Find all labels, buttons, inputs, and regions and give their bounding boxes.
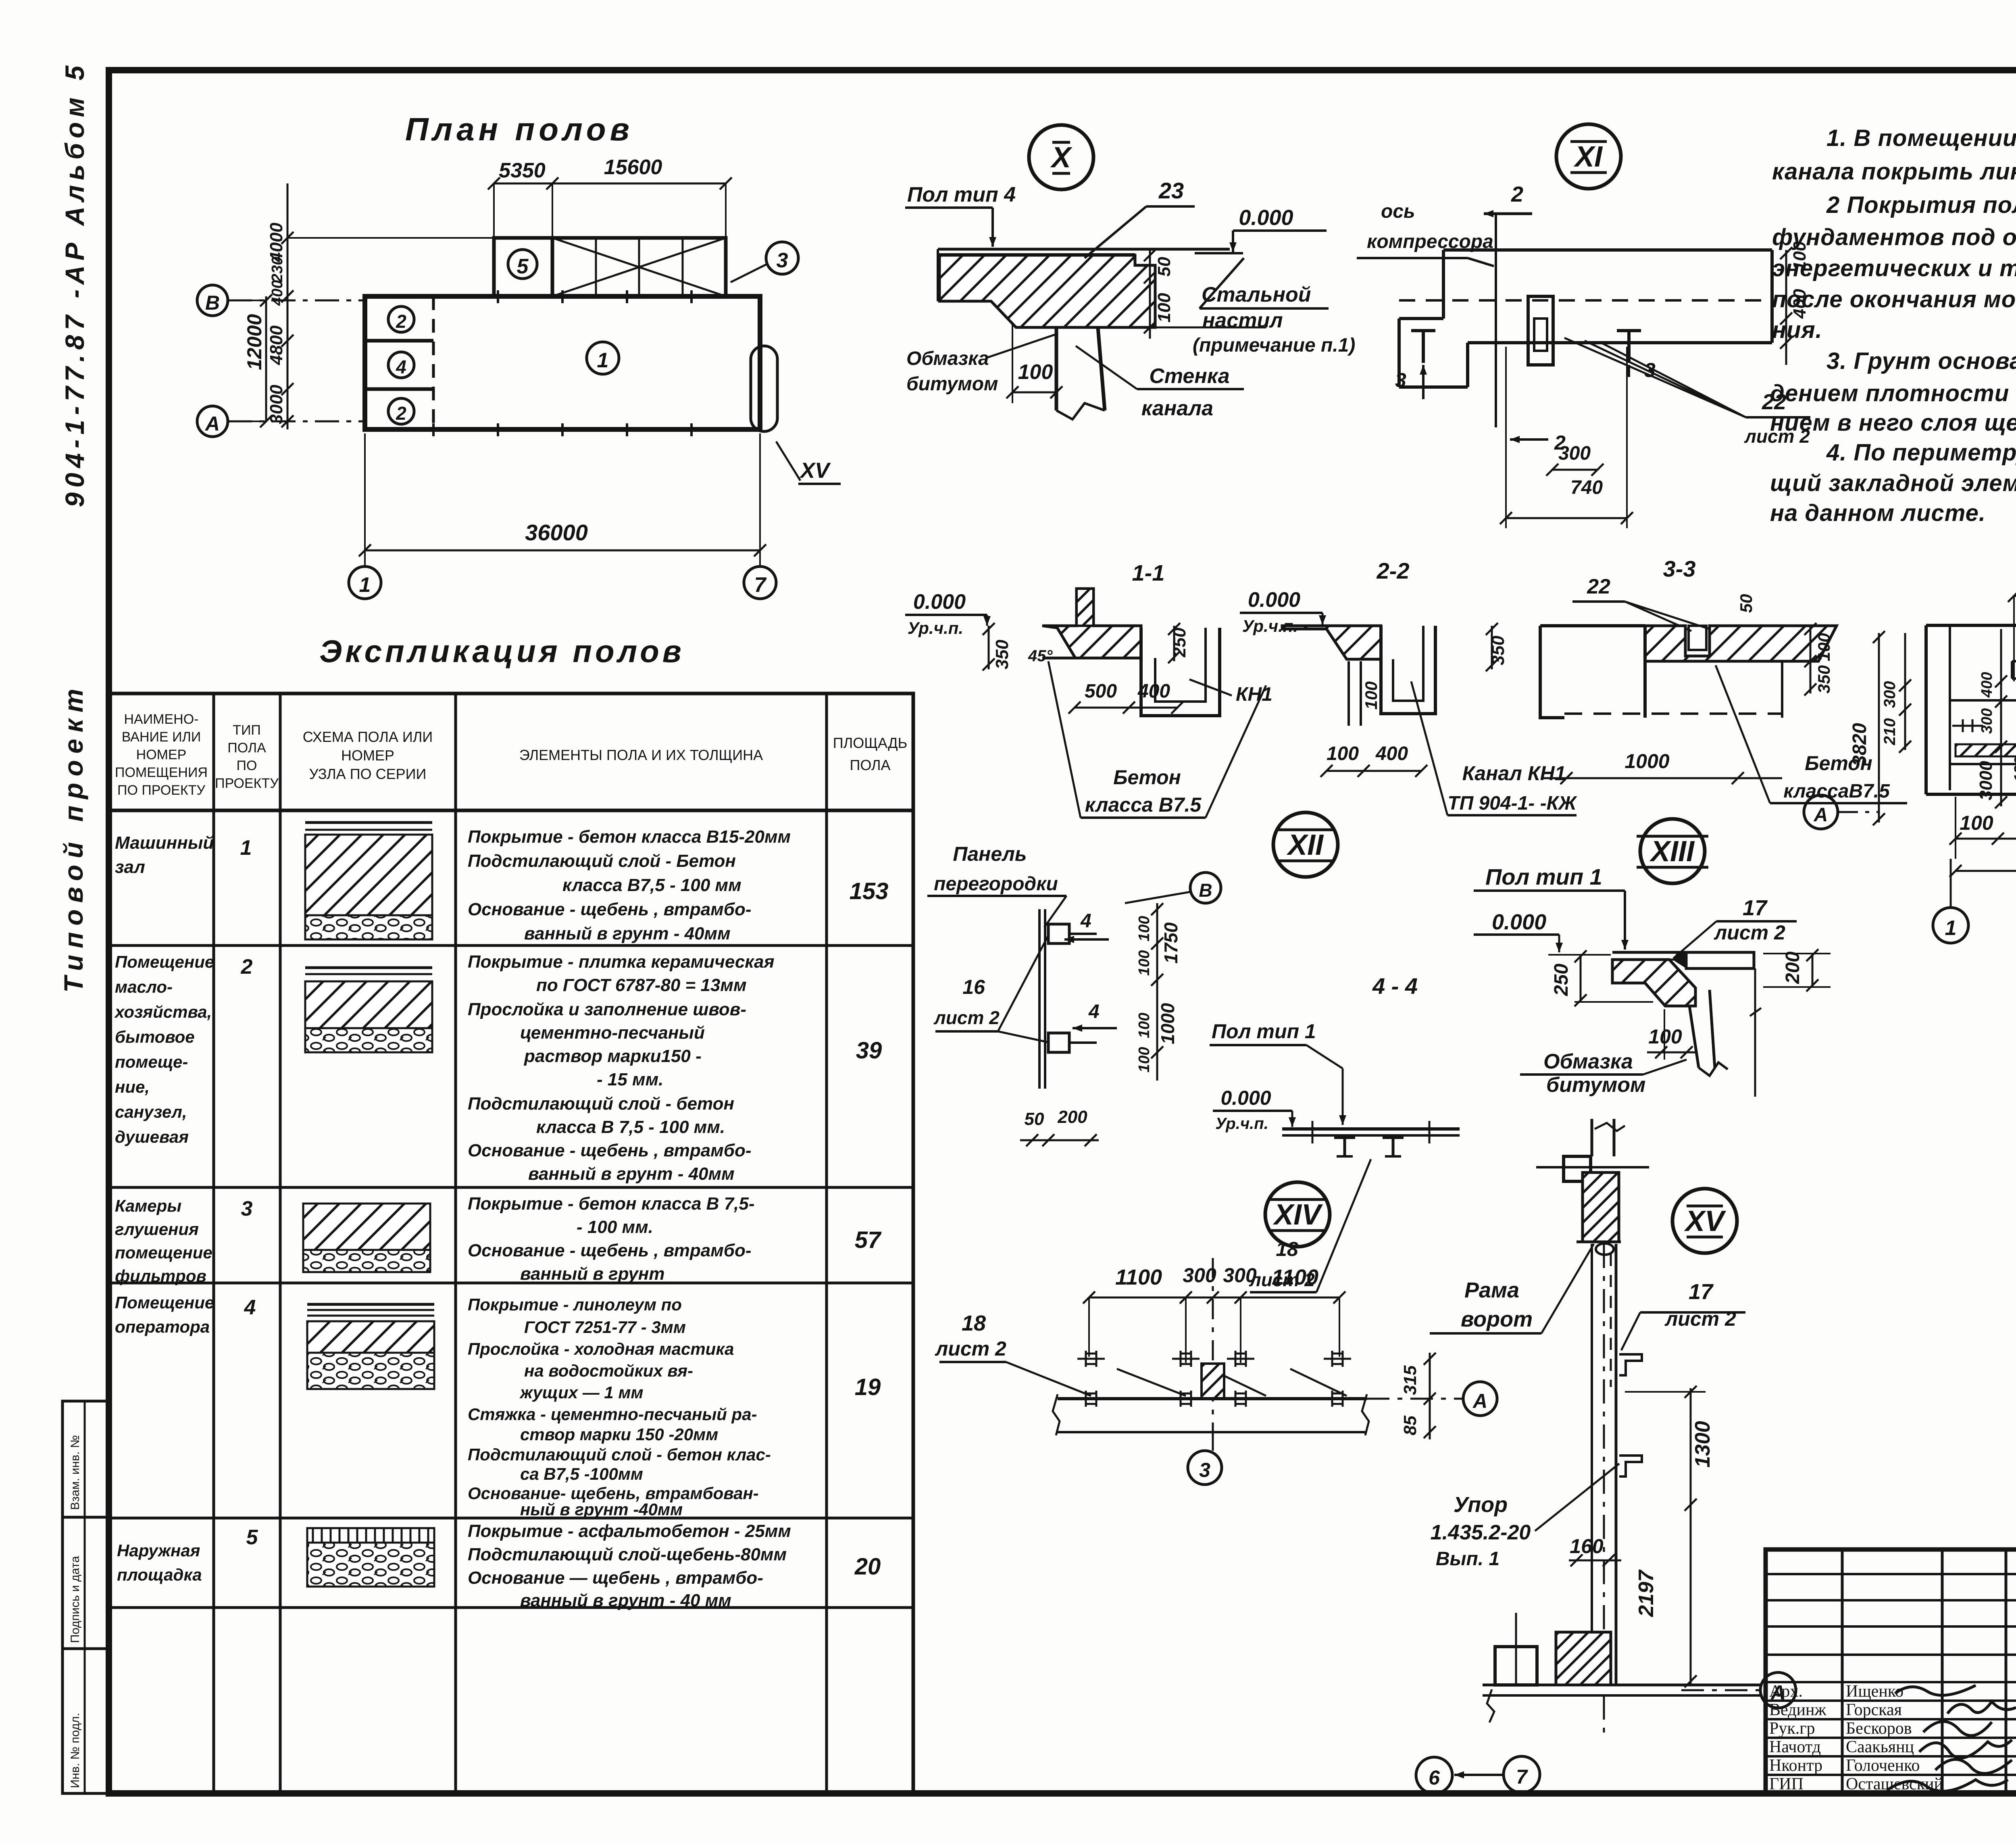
svg-text:Упор: Упор [1454, 1493, 1508, 1517]
svg-text:Арх.: Арх. [1769, 1682, 1803, 1701]
svg-text:План полов: План полов [405, 111, 633, 147]
svg-text:Подстилающий слой - бетон: Подстилающий слой - бетон [468, 1094, 734, 1114]
left margin stamp boxes [62, 1401, 109, 1517]
svg-text:Подстилающий слой-щебень-80мм: Подстилающий слой-щебень-80мм [468, 1545, 787, 1564]
svg-text:12000: 12000 [243, 314, 266, 370]
svg-text:Горская: Горская [1846, 1701, 1902, 1719]
svg-text:4000: 4000 [267, 223, 286, 262]
svg-text:1000: 1000 [1157, 1003, 1178, 1044]
detail XIV: central hatched column [1202, 1364, 1224, 1398]
section 2-2: floor slab with trench bevel [1282, 626, 1381, 659]
room circle 2 (lower) [388, 398, 414, 424]
detail XIV: right rotated dims 315 85 [1429, 1353, 1431, 1439]
svg-text:Взам. инв. №: Взам. инв. № [69, 1435, 82, 1510]
svg-text:ГОСТ 7251-77 - 3мм: ГОСТ 7251-77 - 3мм [524, 1318, 686, 1337]
svg-text:39: 39 [856, 1037, 882, 1064]
svg-text:1: 1 [597, 349, 609, 372]
svg-text:100: 100 [1327, 743, 1359, 764]
svg-text:ванный в грунт - 40мм: ванный в грунт - 40мм [528, 1164, 735, 1184]
svg-text:Вып. 1: Вып. 1 [1436, 1548, 1500, 1570]
svg-text:щий закладной элемент в со: щий закладной элемент в соответствии с у… [1770, 470, 2016, 496]
svg-text:1: 1 [1945, 916, 1957, 940]
svg-text:цементно-песчаный: цементно-песчаный [520, 1023, 705, 1043]
svg-text:Стенка: Стенка [1149, 364, 1229, 388]
svg-text:глушения: глушения [115, 1220, 199, 1239]
floor plan: inner partition walls [432, 296, 435, 429]
svg-text:4800: 4800 [267, 325, 286, 365]
detail XV oval mark on right wall [751, 346, 777, 431]
svg-text:Наружная: Наружная [117, 1541, 200, 1560]
room circle 1 (machine hall) [587, 342, 619, 374]
svg-text:1300: 1300 [1691, 1421, 1714, 1468]
svg-text:17: 17 [1743, 896, 1768, 920]
svg-text:Прослойка и заполнение швов-: Прослойка и заполнение швов- [468, 1000, 746, 1019]
svg-text:ПОЛА: ПОЛА [850, 757, 890, 773]
svg-text:1100: 1100 [1272, 1265, 1318, 1289]
svg-text:(примечание п.1): (примечание п.1) [1193, 335, 1355, 356]
room circle 2 (upper) [388, 306, 414, 332]
svg-text:Экспликация полов: Экспликация полов [319, 633, 685, 669]
row 5 schema [307, 1528, 434, 1543]
svg-text:Подпись и дата: Подпись и дата [69, 1556, 82, 1643]
title block: signature squiggles [1895, 1685, 1976, 1695]
section 4-4: steel floor slab [1282, 1127, 1460, 1131]
detail X: channel wall below [1055, 327, 1058, 410]
svg-text:класса В7.5: класса В7.5 [1085, 793, 1202, 816]
svg-text:2197: 2197 [1635, 1569, 1658, 1617]
floor plan: main building outline [365, 296, 760, 429]
svg-text:Рама: Рама [1464, 1278, 1519, 1302]
svg-text:Саакьянц: Саакьянц [1846, 1738, 1914, 1756]
svg-text:Начотд: Начотд [1769, 1738, 1821, 1756]
svg-text:210: 210 [1881, 718, 1899, 746]
svg-text:3: 3 [777, 249, 788, 272]
svg-text:Осташевский: Осташевский [1846, 1775, 1943, 1793]
svg-text:6: 6 [1429, 1766, 1440, 1789]
svg-text:350: 350 [992, 639, 1012, 669]
svg-text:1750: 1750 [1160, 922, 1181, 964]
svg-text:1: 1 [240, 836, 252, 860]
svg-text:5350: 5350 [499, 159, 546, 182]
fragment 2: axis circle А left [1804, 795, 1838, 829]
row 4 schema [307, 1303, 434, 1306]
axis circle В [197, 285, 228, 316]
fragment 2: dim 6000 [1956, 870, 2016, 872]
detail XV: hatched pier [1583, 1172, 1619, 1242]
svg-text:Помещение: Помещение [115, 952, 214, 971]
detail XI: section mark 2 (bottom) [1510, 438, 1548, 441]
svg-text:ГИП: ГИП [1769, 1775, 1804, 1793]
svg-text:помещение: помещение [115, 1243, 212, 1262]
svg-text:300: 300 [1183, 1264, 1216, 1287]
svg-text:ось: ось [1381, 201, 1415, 222]
svg-text:2: 2 [396, 403, 406, 424]
svg-text:300: 300 [1979, 708, 1995, 734]
svg-text:200: 200 [1782, 952, 1804, 984]
svg-text:0.000: 0.000 [1220, 1087, 1271, 1109]
detail XIII: right extension line with break [1754, 968, 1756, 1097]
svg-text:класса В7,5 - 100 мм: класса В7,5 - 100 мм [562, 875, 741, 895]
svg-text:В: В [205, 292, 220, 314]
svg-text:классаВ7.5: классаВ7.5 [1783, 781, 1890, 802]
svg-text:17: 17 [1689, 1280, 1714, 1304]
svg-text:100: 100 [1018, 360, 1053, 384]
svg-text:А: А [204, 412, 220, 435]
svg-text:100: 100 [1136, 1047, 1153, 1072]
svg-text:Канал КН1: Канал КН1 [1462, 762, 1566, 785]
left vertical dimension chain [287, 183, 289, 429]
detail XIII: steel plate strip 17 [1686, 952, 1754, 968]
detail XV: rotated dim 1300 [1690, 1388, 1692, 1508]
svg-text:57: 57 [855, 1227, 882, 1253]
svg-text:300: 300 [1223, 1264, 1257, 1287]
svg-text:100: 100 [1136, 1013, 1153, 1038]
svg-text:120: 120 [2012, 757, 2016, 782]
svg-text:19: 19 [855, 1374, 881, 1400]
section 3-3: slab with embedded channel [1645, 626, 1837, 661]
svg-text:100: 100 [1814, 633, 1833, 661]
svg-text:бытовое: бытовое [115, 1027, 195, 1046]
svg-text:XIV: XIV [1272, 1199, 1323, 1231]
room circle 3 with leader [766, 242, 798, 274]
svg-text:Инв. № подл.: Инв. № подл. [69, 1713, 82, 1788]
svg-text:400: 400 [1375, 743, 1408, 764]
detail XIV: axis circle А [1463, 1382, 1497, 1416]
axis circle А [197, 406, 228, 437]
svg-text:3000: 3000 [267, 385, 286, 424]
svg-text:2 Покрытия полов выполнять: 2 Покрытия полов выполнять после устройс… [1826, 192, 2016, 218]
svg-text:3-3: 3-3 [1663, 556, 1696, 581]
detail XIII: rotated dim 200 [1812, 954, 1814, 987]
svg-text:Голоченко: Голоченко [1846, 1756, 1920, 1775]
svg-text:3: 3 [1199, 1459, 1210, 1481]
svg-text:36000: 36000 [525, 520, 588, 545]
svg-text:2: 2 [396, 311, 406, 332]
svg-text:ПО: ПО [237, 758, 257, 773]
svg-text:160: 160 [1570, 1535, 1604, 1558]
detail circle XIII [1640, 819, 1705, 883]
svg-text:1: 1 [359, 573, 371, 597]
detail XI: foundation slab plan [1443, 248, 1772, 252]
svg-text:XI: XI [1573, 141, 1603, 173]
svg-text:ворот: ворот [1461, 1307, 1533, 1331]
svg-text:85: 85 [1400, 1416, 1420, 1435]
svg-text:5: 5 [517, 255, 529, 278]
axis circle 1 (bottom) [349, 566, 381, 599]
svg-text:100: 100 [1136, 950, 1153, 976]
detail circle X [1029, 125, 1093, 190]
svg-text:класса В 7,5 - 100 мм.: класса В 7,5 - 100 мм. [536, 1117, 725, 1137]
svg-text:Покрытие - плитка керамическа: Покрытие - плитка керамическая [468, 952, 775, 972]
svg-text:НОМЕР: НОМЕР [341, 747, 394, 764]
svg-text:жущих — 1 мм: жущих — 1 мм [519, 1383, 644, 1402]
svg-text:100: 100 [1136, 916, 1153, 941]
floor plan: upper block with X-braces (room 5 and 3) [494, 238, 726, 296]
svg-text:дением плотности скелета до: дением плотности скелета до 1,6 Т/м³ с в… [1770, 380, 2016, 406]
svg-text:зал: зал [115, 857, 145, 877]
svg-text:на водостойких вя-: на водостойких вя- [524, 1361, 693, 1380]
svg-text:канала покрыть линолеумом (: канала покрыть линолеумом (ГОСТ 7251-77)… [1772, 158, 2016, 185]
svg-text:Ур.ч.п.: Ур.ч.п. [1215, 1115, 1268, 1133]
svg-text:ния.: ния. [1772, 317, 1822, 343]
svg-text:КН1: КН1 [1236, 684, 1272, 705]
svg-text:санузел,: санузел, [115, 1102, 187, 1121]
svg-text:Пол тип 1: Пол тип 1 [1485, 864, 1602, 889]
svg-text:после окончания монтажа тех: после окончания монтажа технологического… [1772, 286, 2016, 312]
svg-text:100: 100 [1154, 293, 1174, 323]
svg-text:ванный в грунт - 40мм: ванный в грунт - 40мм [524, 924, 731, 943]
svg-text:50: 50 [1154, 257, 1174, 277]
svg-text:3: 3 [241, 1197, 253, 1220]
svg-text:3000: 3000 [1976, 761, 1996, 800]
svg-text:15600: 15600 [604, 156, 662, 179]
svg-text:350: 350 [1814, 665, 1833, 693]
detail XI: right dim 400/100 rotated [1785, 250, 1787, 365]
svg-text:ПО ПРОЕКТУ: ПО ПРОЕКТУ [117, 783, 205, 798]
svg-text:300: 300 [1881, 681, 1899, 708]
svg-text:ние,: ние, [115, 1077, 150, 1096]
svg-text:ПЛОЩАДЬ: ПЛОЩАДЬ [833, 735, 907, 751]
svg-text:X: X [1050, 142, 1073, 174]
svg-text:ный в грунт -40мм: ный в грунт -40мм [520, 1500, 683, 1519]
detail XI: anchor T symbols [1411, 329, 1435, 332]
svg-text:НАИМЕНО-: НАИМЕНО- [124, 712, 199, 727]
svg-text:энергетических и технологиче: энергетических и технологических разводо… [1772, 255, 2016, 281]
svg-text:0.000: 0.000 [1492, 910, 1546, 934]
svg-text:23: 23 [1158, 178, 1184, 203]
svg-text:200: 200 [1057, 1107, 1087, 1127]
axis circle 7 (bottom) [744, 566, 776, 599]
svg-text:Машинный: Машинный [115, 833, 214, 853]
svg-text:Основание — щебень , втрамбо-: Основание — щебень , втрамбо- [468, 1568, 763, 1588]
svg-text:Типовой проект: Типовой проект [58, 682, 88, 993]
svg-text:Основание - щебень , втрамбо-: Основание - щебень , втрамбо- [468, 900, 752, 919]
svg-text:Покрытие - бетон класса В 7,: Покрытие - бетон класса В 7,5- [468, 1194, 754, 1214]
detail XIV: floor slab band [1058, 1397, 1367, 1400]
svg-text:XII: XII [1286, 829, 1324, 861]
detail XIV: leader diagonals [1006, 1362, 1091, 1396]
fragment 2: floor hatched strip (section) [1956, 744, 2016, 756]
svg-text:НОМЕР: НОМЕР [136, 747, 187, 762]
svg-text:Покрытие - линолеум по: Покрытие - линолеум по [468, 1295, 682, 1314]
svg-text:400: 400 [269, 280, 286, 306]
svg-text:1. В помещении оператора ст: 1. В помещении оператора стальные щиты п… [1826, 125, 2016, 151]
svg-text:2-2: 2-2 [1377, 558, 1410, 583]
svg-text:4: 4 [1080, 910, 1091, 932]
fragment 2: axis circle 1 [1933, 908, 1968, 943]
svg-text:904-1-77.87 -АР Альбом 5: 904-1-77.87 -АР Альбом 5 [60, 61, 90, 507]
section 3-3: right rotated dims 100 350 [1810, 626, 1812, 693]
svg-text:площадка: площадка [117, 1565, 202, 1584]
svg-text:ПОМЕЩЕНИЯ: ПОМЕЩЕНИЯ [115, 765, 208, 780]
svg-text:раствор марки150 -: раствор марки150 - [524, 1046, 702, 1066]
svg-text:2: 2 [1511, 182, 1523, 206]
detail XII: anchor plates on panel [1048, 924, 1069, 943]
svg-text:А: А [1472, 1390, 1487, 1412]
svg-text:лист 2: лист 2 [935, 1337, 1006, 1360]
svg-text:лист 2: лист 2 [933, 1007, 1000, 1028]
svg-text:са В7,5 -100мм: са В7,5 -100мм [520, 1464, 643, 1483]
svg-text:16: 16 [962, 976, 985, 998]
svg-text:4: 4 [244, 1296, 256, 1319]
detail circle XIV [1265, 1182, 1330, 1247]
svg-text:Камеры: Камеры [115, 1196, 181, 1215]
svg-text:Пол тип 1: Пол тип 1 [1212, 1020, 1316, 1043]
detail circle XI [1556, 124, 1621, 189]
svg-text:Пол тип 4: Пол тип 4 [907, 183, 1016, 206]
svg-text:1.435.2-20: 1.435.2-20 [1431, 1521, 1531, 1544]
svg-text:4: 4 [396, 356, 406, 377]
svg-text:2: 2 [241, 955, 253, 979]
svg-text:50: 50 [1025, 1109, 1044, 1129]
svg-text:0.000: 0.000 [1248, 588, 1300, 612]
svg-text:УЗЛА ПО СЕРИИ: УЗЛА ПО СЕРИИ [309, 766, 427, 782]
svg-text:7: 7 [1516, 1766, 1528, 1788]
detail XV: rotated dim 2197 [1690, 1508, 1692, 1685]
svg-text:Стяжка - цементно-песчаный ра: Стяжка - цементно-песчаный ра- [468, 1405, 757, 1424]
svg-text:В: В [1199, 880, 1212, 901]
svg-text:18: 18 [962, 1311, 986, 1335]
svg-text:100: 100 [1960, 812, 1993, 834]
section 2-2: channel walls [1381, 626, 1435, 714]
fragment 2: left dims 3820 etc [1878, 633, 1880, 823]
svg-text:230: 230 [269, 257, 286, 283]
svg-text:Рук.гр: Рук.гр [1769, 1719, 1815, 1738]
svg-text:3: 3 [1395, 369, 1406, 392]
svg-text:XV: XV [799, 458, 831, 483]
svg-text:Подстилающий слой - Бетон: Подстилающий слой - Бетон [468, 851, 736, 871]
detail circle XV [1672, 1189, 1737, 1253]
svg-text:1-1: 1-1 [1132, 560, 1165, 585]
svg-text:Ур.ч.п.: Ур.ч.п. [908, 618, 963, 637]
svg-text:3820: 3820 [1849, 723, 1870, 766]
detail XIII: wall below [1689, 1006, 1699, 1068]
svg-text:СХЕМА ПОЛА ИЛИ: СХЕМА ПОЛА ИЛИ [303, 729, 433, 745]
svg-text:ЭЛЕМЕНТЫ ПОЛА И ИХ ТОЛЩИНА: ЭЛЕМЕНТЫ ПОЛА И ИХ ТОЛЩИНА [519, 747, 763, 763]
detail XV: axis circle А bottom [1760, 1672, 1796, 1708]
svg-text:100: 100 [1648, 1025, 1682, 1048]
axis ticks on building outline [497, 290, 499, 303]
svg-text:Покрытие - асфальтобетон - 25м: Покрытие - асфальтобетон - 25мм [468, 1521, 791, 1541]
svg-text:хозяйства,: хозяйства, [114, 1002, 212, 1021]
detail X: floor slab hatched with 45 bevel [939, 255, 1155, 327]
svg-text:на данном листе.: на данном листе. [1770, 500, 1986, 526]
svg-text:Помещение: Помещение [115, 1293, 214, 1312]
fragment 2: bottom dim chain [1955, 797, 1956, 859]
svg-text:315: 315 [1400, 1365, 1420, 1395]
svg-text:3. Грунт основания под пол: 3. Грунт основания под полы уплотнить с … [1826, 348, 2016, 374]
svg-text:Ищенко: Ищенко [1846, 1682, 1904, 1701]
detail XIII: floor slab hatched with wedge [1612, 951, 1686, 954]
svg-text:ТП 904-1- -КЖ: ТП 904-1- -КЖ [1447, 793, 1577, 814]
svg-text:лист 2: лист 2 [1714, 921, 1785, 944]
svg-text:душевая: душевая [115, 1127, 189, 1146]
svg-text:1000: 1000 [1624, 750, 1669, 773]
svg-text:Основание - щебень , втрамбо-: Основание - щебень , втрамбо- [468, 1141, 752, 1160]
svg-text:Основание - щебень , втрамбо-: Основание - щебень , втрамбо- [468, 1241, 752, 1260]
detail XV: stop brackets [1619, 1354, 1642, 1375]
svg-text:0.000: 0.000 [913, 590, 966, 614]
svg-text:Подстилающий слой - бетон кла: Подстилающий слой - бетон клас- [468, 1445, 771, 1464]
row 3 schema [303, 1204, 430, 1250]
svg-text:Прослойка - холодная мастика: Прослойка - холодная мастика [468, 1339, 734, 1358]
svg-text:фильтров: фильтров [115, 1266, 206, 1285]
section 1-1: channel box [1141, 628, 1220, 716]
svg-text:100: 100 [1362, 681, 1381, 710]
svg-text:1100: 1100 [1115, 1265, 1162, 1289]
section 4-4: I-beam anchors [1334, 1137, 1355, 1139]
detail XII: dims right 1750 1000 100x100 [1156, 903, 1158, 1081]
svg-text:канала: канала [1141, 397, 1213, 420]
svg-text:нием в него слоя щебня.: нием в него слоя щебня. [1770, 410, 2016, 436]
detail XII: axis circle В [1190, 873, 1221, 903]
row 2 schema [305, 966, 432, 969]
svg-text:ПРОЕКТУ: ПРОЕКТУ [215, 776, 279, 791]
svg-text:битумом: битумом [1546, 1073, 1646, 1097]
svg-text:настил: настил [1202, 309, 1283, 332]
detail XV: wall top with break and block [1591, 1119, 1593, 1156]
svg-text:500: 500 [1085, 681, 1117, 702]
svg-text:4 - 4: 4 - 4 [1372, 973, 1418, 999]
detail XV: axis circles 6 and 7 with arrow [1416, 1757, 1452, 1793]
section 1-1: floor slab with trench [1042, 589, 1141, 658]
svg-text:перегородки: перегородки [934, 873, 1058, 895]
svg-text:створ марки 150 -20мм: створ марки 150 -20мм [520, 1425, 718, 1444]
svg-text:2: 2 [1554, 431, 1566, 454]
svg-text:- 100 мм.: - 100 мм. [577, 1217, 653, 1237]
main title block frame [1766, 1549, 2016, 1793]
detail XI: embedded channel element [1528, 296, 1553, 365]
detail XV: bottom floor and piers [1483, 1684, 1760, 1687]
svg-text:ПОЛА: ПОЛА [227, 740, 266, 756]
detail XV: roller under pier [1596, 1243, 1614, 1255]
svg-text:XIII: XIII [1649, 835, 1695, 868]
svg-text:5: 5 [246, 1526, 258, 1549]
svg-text:Покрытие - бетон класса В15-2: Покрытие - бетон класса В15-20мм [468, 827, 791, 847]
detail XIII: rotated dim 250 [1580, 955, 1582, 1002]
svg-text:ТИП: ТИП [233, 723, 261, 738]
svg-text:153: 153 [850, 878, 889, 904]
svg-text:250: 250 [1551, 964, 1572, 996]
detail X: dim 50/100 rotated [1149, 249, 1151, 339]
detail XV: gate frame verticals [1591, 1244, 1593, 1685]
room circle 4 [388, 352, 414, 378]
row 1 schema [305, 821, 432, 824]
fragment 2: channel plan outline [1926, 624, 2016, 627]
svg-text:лист 2: лист 2 [1664, 1308, 1736, 1330]
svg-text:0.000: 0.000 [1239, 206, 1293, 230]
svg-text:Обмазка: Обмазка [906, 348, 989, 369]
svg-text:битумом: битумом [906, 373, 998, 395]
svg-text:Бетон: Бетон [1113, 766, 1181, 789]
svg-text:Вединж: Вединж [1769, 1701, 1826, 1719]
svg-text:оператора: оператора [115, 1317, 210, 1336]
svg-text:А: А [1814, 804, 1828, 826]
svg-text:20: 20 [854, 1554, 881, 1580]
detail circle XII [1273, 812, 1338, 877]
svg-text:4. По периметру каналов ус: 4. По периметру каналов установить окайм… [1826, 439, 2016, 466]
room circle 5 [508, 250, 537, 279]
svg-text:масло-: масло- [115, 977, 173, 996]
svg-text:Бескоров: Бескоров [1846, 1719, 1912, 1738]
svg-text:ванный в грунт - 40 мм: ванный в грунт - 40 мм [520, 1591, 731, 1610]
svg-text:7: 7 [754, 573, 767, 597]
fragment 2: anchor plus marks [1952, 725, 1983, 727]
svg-text:400: 400 [1137, 681, 1170, 702]
svg-text:ВАНИЕ ИЛИ: ВАНИЕ ИЛИ [122, 729, 201, 745]
svg-text:ванный в грунт: ванный в грунт [520, 1264, 665, 1284]
detail XII: partition panel vertical [1038, 909, 1041, 1089]
